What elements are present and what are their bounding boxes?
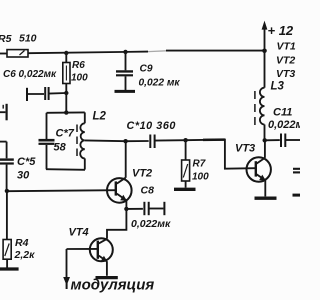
svg-text:С*10 360: С*10 360 <box>127 120 176 132</box>
svg-text:C9: C9 <box>140 64 153 75</box>
svg-text:С*5: С*5 <box>17 156 36 168</box>
node tank top junction <box>64 110 68 114</box>
L2 core dashed <box>76 125 78 157</box>
tank loop right lower <box>84 158 86 169</box>
svg-text:510: 510 <box>19 33 37 45</box>
svg-text:100: 100 <box>192 172 209 183</box>
wire top rail right <box>166 50 265 52</box>
resistor R4 <box>3 191 11 268</box>
node VT2 emitter junction <box>124 207 128 211</box>
node junction C9 <box>123 50 127 54</box>
capacitor C11 <box>265 134 300 148</box>
cut capacitor right edge <box>293 169 300 173</box>
+12V supply arrow <box>262 21 268 51</box>
svg-text:+ 12: + 12 <box>268 23 294 38</box>
resistor R7 <box>182 140 190 187</box>
svg-text:58: 58 <box>54 142 67 154</box>
svg-text:VT4: VT4 <box>69 227 89 239</box>
capacitor C*7 <box>39 140 55 144</box>
wire L2 tap to VT2 collector node <box>85 139 126 142</box>
svg-text:0,022мк: 0,022мк <box>131 218 171 230</box>
ground VT4 <box>96 276 118 279</box>
ground R4 <box>0 267 19 270</box>
ground VT3 <box>255 196 277 199</box>
inductor L2 <box>80 123 85 158</box>
svg-text:R4: R4 <box>15 237 29 249</box>
ground C9 <box>115 90 136 93</box>
tank loop top wire <box>47 111 85 113</box>
svg-text:R5: R5 <box>0 33 12 45</box>
wire emitter to VT4 collector <box>107 209 126 239</box>
node L3/C11/VT3 junction <box>263 138 267 142</box>
svg-text:0,022м: 0,022м <box>268 119 300 131</box>
L3 core dashed <box>254 91 256 126</box>
capacitor C*10 <box>126 135 186 149</box>
svg-text:модуляция: модуляция <box>71 277 155 294</box>
svg-text:30: 30 <box>17 170 30 182</box>
svg-text:С*7: С*7 <box>56 128 75 140</box>
modulation input wire <box>66 249 68 277</box>
svg-text:С8: С8 <box>141 185 155 197</box>
capacitor C6 <box>27 87 66 101</box>
transistor VT4 <box>90 238 113 275</box>
svg-text:С6 0,022мк: С6 0,022мк <box>3 69 57 80</box>
wire to VT3 base <box>186 140 256 169</box>
capacitor C8 <box>126 202 164 215</box>
resistor R6 <box>63 53 70 93</box>
node base/R4/C5 junction <box>5 189 9 193</box>
wire to tank top <box>65 93 67 113</box>
node collector junction <box>123 139 127 143</box>
wire VT2 base <box>7 190 116 191</box>
cut capacitor left edge top <box>0 104 7 121</box>
wire top rail faint segment <box>148 50 166 53</box>
svg-text:R6: R6 <box>72 60 85 71</box>
svg-text:R7: R7 <box>193 159 206 170</box>
svg-text:2,2к: 2,2к <box>14 249 36 261</box>
svg-text:VT3: VT3 <box>235 143 255 155</box>
wire top rail left segment <box>0 53 7 55</box>
transistor VT3 <box>247 140 271 196</box>
tank loop bottom wire <box>46 168 85 171</box>
node junction +12 rail <box>262 49 267 54</box>
wire VT4 base <box>67 248 98 250</box>
node junction R5/R6 <box>64 51 68 55</box>
svg-text:C11: C11 <box>273 107 292 119</box>
svg-text:VT2: VT2 <box>276 55 295 67</box>
ground R7 <box>174 188 196 191</box>
cut ground right edge <box>293 194 301 197</box>
capacitor C9 <box>116 52 133 90</box>
svg-text:VT3: VT3 <box>276 68 295 80</box>
svg-text:0,022 мк: 0,022 мк <box>139 78 181 89</box>
tank loop right upper <box>84 112 86 123</box>
node C6/R6 junction <box>64 91 68 95</box>
svg-text:VT1: VT1 <box>277 41 296 53</box>
transistor VT2 <box>107 178 132 209</box>
svg-text:100: 100 <box>71 73 88 84</box>
svg-text:L2: L2 <box>93 111 107 123</box>
resistor R5 <box>7 50 28 57</box>
svg-text:VT2: VT2 <box>132 168 152 180</box>
wire top rail mid <box>28 52 148 54</box>
modulation arrow <box>63 277 70 289</box>
tank loop left wire upper <box>46 113 48 139</box>
node R7 junction <box>183 138 187 142</box>
tank loop left wire lower <box>46 145 48 169</box>
svg-text:L3: L3 <box>271 81 285 93</box>
inductor L3 <box>260 51 265 141</box>
capacitor C*5 <box>0 142 14 191</box>
wire VT2 collector <box>125 141 127 178</box>
